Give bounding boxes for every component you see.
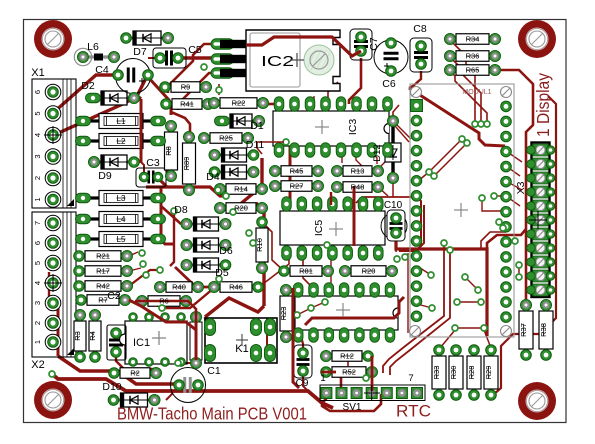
svg-text:D10: D10 (102, 381, 121, 393)
svg-text:X3: X3 (515, 181, 527, 194)
svg-text:D12: D12 (372, 144, 383, 161)
svg-text:D6: D6 (219, 245, 233, 257)
svg-text:D7: D7 (133, 46, 147, 58)
svg-text:1 Display: 1 Display (533, 73, 553, 137)
svg-text:D4: D4 (206, 171, 220, 183)
svg-text:1: 1 (33, 197, 42, 201)
svg-text:C9: C9 (296, 378, 309, 389)
svg-text:SV1: SV1 (343, 402, 362, 413)
svg-text:C4: C4 (95, 64, 109, 76)
svg-text:IC3: IC3 (347, 119, 359, 136)
svg-text:D9: D9 (98, 170, 112, 182)
svg-text:C6: C6 (382, 78, 396, 90)
svg-text:L6: L6 (87, 41, 99, 53)
svg-text:IC5: IC5 (313, 220, 325, 237)
svg-text:BMW-Tacho Main PCB V001: BMW-Tacho Main PCB V001 (117, 404, 307, 424)
svg-text:6: 6 (33, 90, 42, 94)
svg-text:IC2: IC2 (261, 53, 294, 70)
svg-text:D8: D8 (174, 204, 188, 216)
svg-text:D11: D11 (246, 139, 265, 151)
svg-text:C5: C5 (188, 44, 202, 56)
svg-text:D2: D2 (81, 80, 95, 92)
svg-text:5: 5 (33, 261, 42, 265)
svg-text:3: 3 (33, 154, 42, 158)
svg-text:1: 1 (320, 373, 325, 384)
svg-text:IC1: IC1 (133, 337, 150, 349)
svg-text:C7: C7 (368, 37, 380, 51)
svg-text:C1: C1 (207, 365, 221, 377)
svg-text:5: 5 (33, 111, 42, 115)
svg-text:C2: C2 (107, 290, 121, 302)
svg-text:7: 7 (408, 373, 413, 384)
svg-text:RTC: RTC (396, 402, 431, 421)
svg-text:4: 4 (33, 133, 42, 137)
svg-text:D5: D5 (215, 267, 229, 279)
svg-text:4: 4 (33, 281, 42, 285)
svg-text:MODUL1: MODUL1 (462, 89, 491, 96)
svg-text:X2: X2 (31, 359, 44, 371)
svg-text:C10: C10 (384, 200, 403, 211)
svg-text:2: 2 (33, 321, 42, 325)
svg-text:X1: X1 (31, 67, 44, 79)
svg-text:7: 7 (33, 221, 42, 225)
svg-text:3: 3 (33, 301, 42, 305)
svg-text:D1: D1 (250, 120, 264, 132)
svg-text:6: 6 (33, 241, 42, 245)
svg-text:2: 2 (33, 176, 42, 180)
svg-text:1: 1 (33, 340, 42, 344)
svg-text:C8: C8 (413, 23, 427, 35)
svg-text:C3: C3 (146, 157, 160, 169)
